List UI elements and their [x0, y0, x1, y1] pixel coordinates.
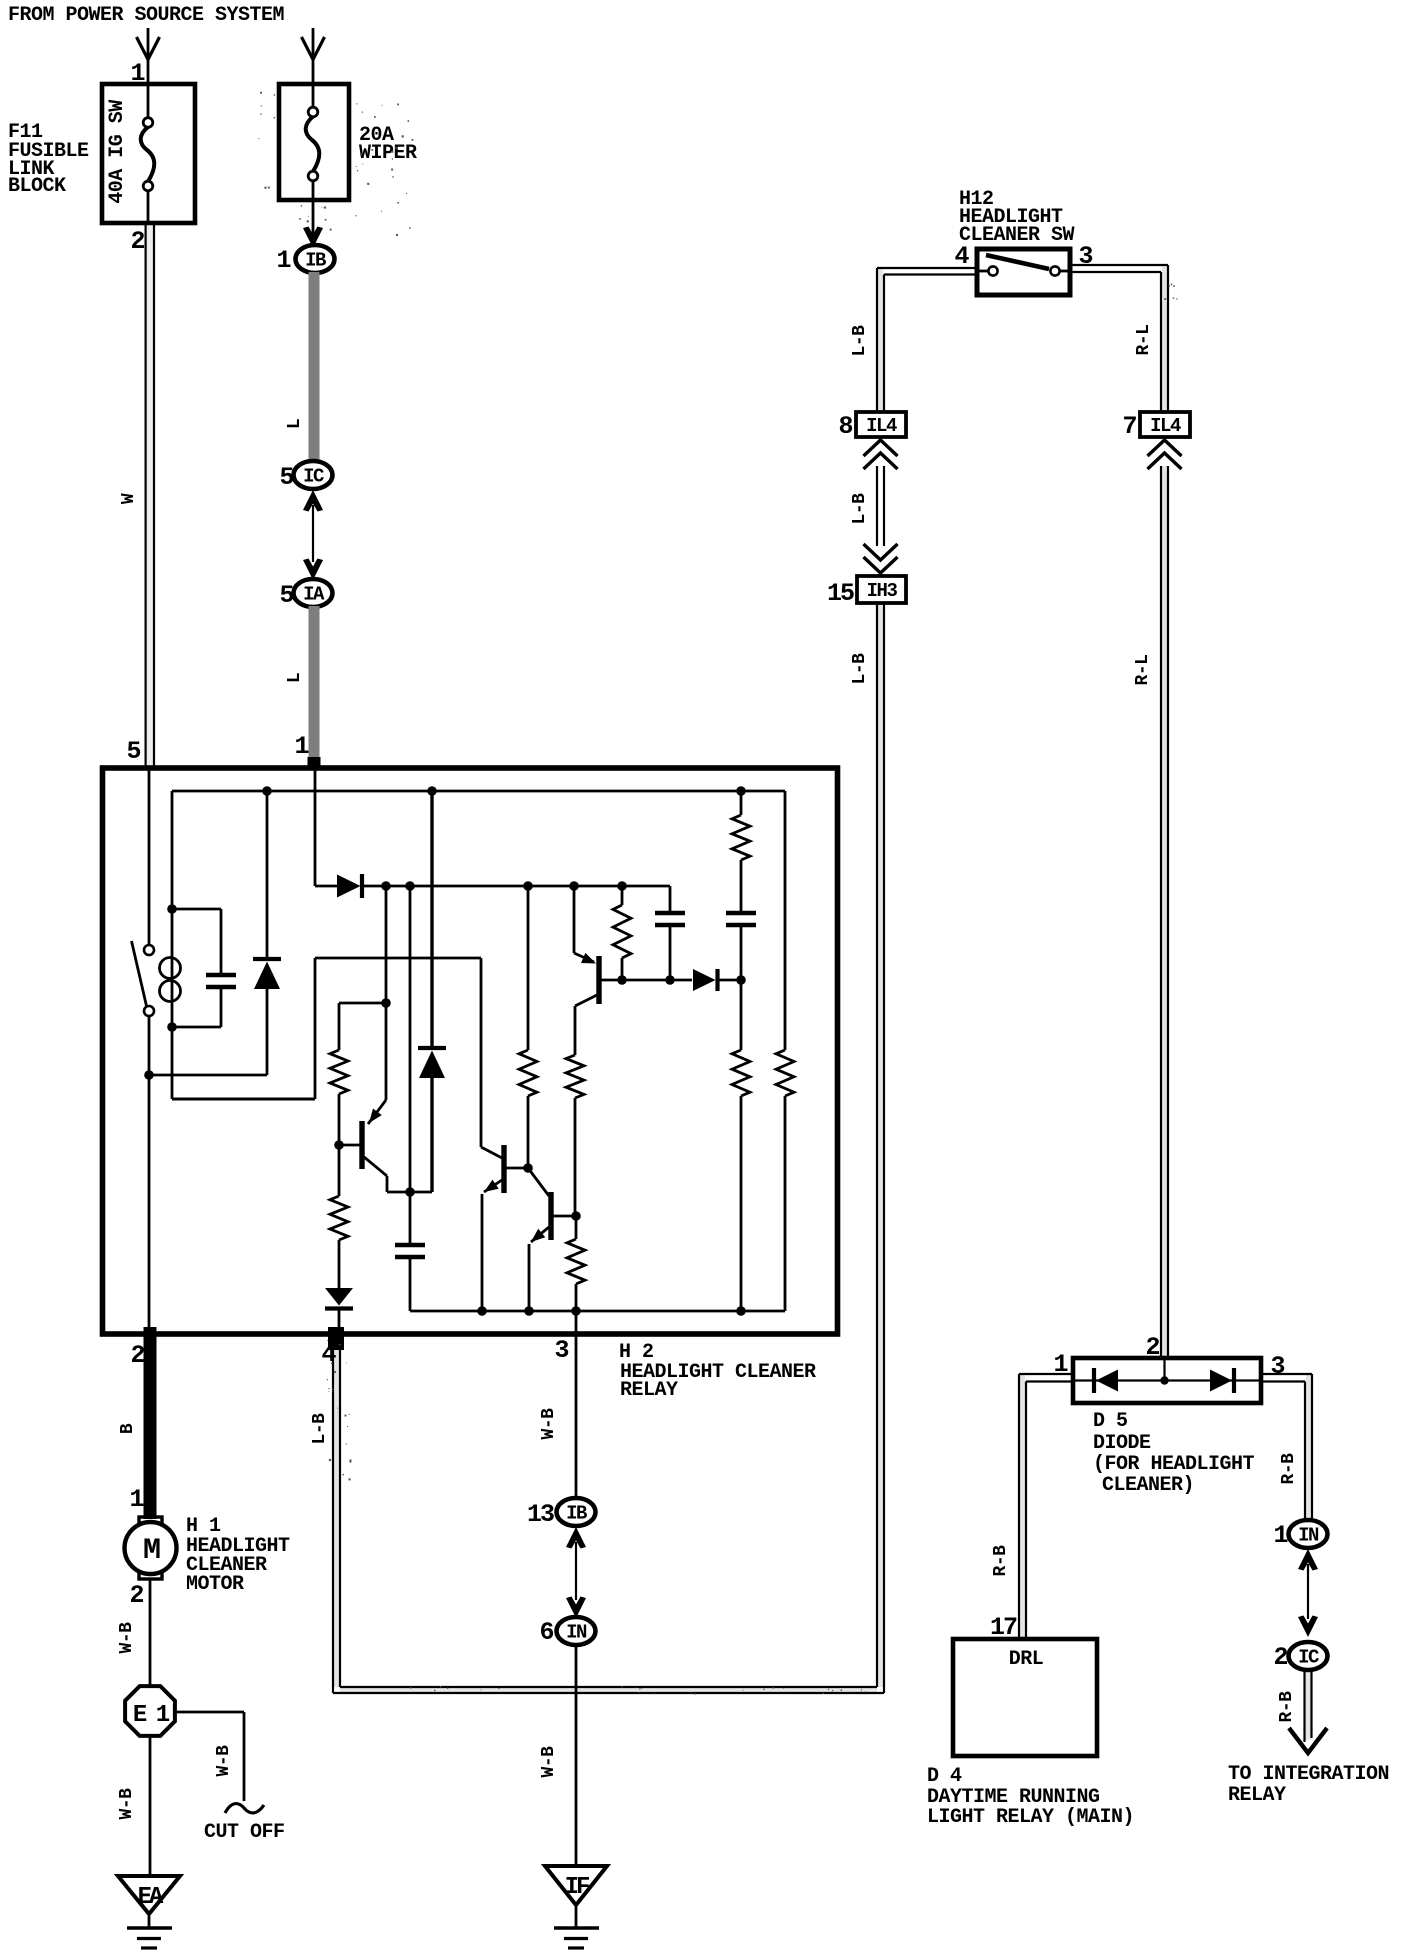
node Q2a base: [523, 1163, 533, 1173]
transistor Q2b (NPN): [528, 1168, 576, 1311]
label H12 HEADLIGHT CLEANER SW: [959, 188, 1075, 247]
step wire to Q2 collector: [315, 958, 481, 1147]
svg-text:IC: IC: [1298, 1647, 1319, 1669]
svg-text:W-B: W-B: [117, 1788, 137, 1820]
connector IH3: [857, 576, 906, 603]
connector IC (right): [1289, 1642, 1328, 1670]
link to R2: [339, 1002, 386, 1005]
svg-text:IH3: IH3: [867, 580, 898, 602]
node x386 y1003: [381, 998, 391, 1008]
svg-text:3: 3: [1078, 242, 1092, 271]
relay switch contacts: [144, 945, 154, 955]
connector IL4 (right): [1140, 412, 1190, 437]
wire IN to ground IF: [575, 1645, 578, 1866]
wire node to D0 anode: [149, 1074, 267, 1077]
svg-text:R-L: R-L: [1133, 655, 1153, 686]
motor H1: [125, 1522, 177, 1574]
svg-text:4: 4: [954, 242, 969, 271]
wire W double line F11 pin2 to H2 pin5: [146, 223, 154, 766]
diode D3: [325, 1288, 353, 1334]
node bottom rail x741: [736, 1306, 746, 1316]
node base line x741: [736, 975, 746, 985]
motor H1 terminal caps: [139, 1517, 162, 1579]
wire R-B D5 pin3 to IN: [1261, 1374, 1312, 1518]
fusible link block F11 box: [102, 84, 195, 223]
connector IN (right): [1289, 1520, 1328, 1548]
switch H12 box: [977, 249, 1070, 295]
svg-text:1: 1: [294, 732, 308, 761]
svg-text:5: 5: [279, 581, 293, 610]
right column wire with resistor R9: [776, 791, 794, 1311]
wire L-B double vertical from H2 pin4: [333, 1350, 340, 1693]
collector link rail y1192: [387, 1191, 432, 1194]
label D5 DIODE (FOR HEADLIGHT CLEANER): [1093, 1410, 1255, 1497]
diode D0 (coil clamp): [253, 791, 281, 1075]
node mid rail x622: [617, 881, 627, 891]
wire L-B double vertical right run: [877, 603, 884, 1693]
power feed arrow to wiper fuse: [302, 28, 325, 82]
wire motor to E1: [149, 1579, 152, 1688]
wire R-L down to D5: [1161, 466, 1168, 1356]
wire R-B to integration relay with arrow: [1289, 1670, 1327, 1753]
node mid rail x528: [523, 881, 533, 891]
junction arrows IN to IC: [1298, 1549, 1318, 1637]
connector IN (6): [557, 1617, 596, 1645]
node bottom rail x529: [524, 1306, 534, 1316]
svg-text:CLEANER): CLEANER): [1102, 1474, 1194, 1497]
svg-text:L-B: L-B: [850, 493, 870, 525]
node base line x622: [617, 975, 627, 985]
svg-text:BLOCK: BLOCK: [8, 175, 66, 198]
pin4 stub: [328, 1327, 344, 1350]
resistor R3: [330, 1145, 348, 1288]
svg-text:W-B: W-B: [117, 1622, 137, 1654]
svg-text:(FOR HEADLIGHT: (FOR HEADLIGHT: [1093, 1453, 1255, 1476]
transistor Q3 (PNP): [574, 886, 599, 1050]
connector arrows above IH3: [864, 544, 898, 573]
svg-text:5: 5: [279, 463, 293, 492]
svg-text:1: 1: [129, 1485, 143, 1514]
resistor R4: [732, 791, 750, 911]
svg-text:2: 2: [129, 1581, 143, 1610]
svg-text:MOTOR: MOTOR: [186, 1573, 244, 1596]
resistor R2: [330, 1003, 348, 1145]
svg-text:CUT OFF: CUT OFF: [204, 1821, 285, 1844]
cut off stub wire: [175, 1712, 264, 1813]
svg-text:E 1: E 1: [133, 1702, 170, 1729]
fuse box 20A WIPER: [279, 84, 349, 200]
branch x386 to Q1 emitter: [368, 886, 386, 1124]
svg-text:W: W: [119, 493, 139, 504]
svg-text:R-B: R-B: [1279, 1453, 1299, 1485]
wire R-B D5 pin1 to DRL: [1019, 1374, 1073, 1639]
relay switch blade: [132, 941, 147, 1006]
label D4 DAYTIME RUNNING LIGHT RELAY (MAIN): [927, 1765, 1134, 1829]
wire pin5 to relay switch: [148, 766, 151, 945]
svg-text:15: 15: [827, 579, 854, 608]
switch H12 contacts and blade: [978, 255, 1070, 276]
svg-text:EA: EA: [138, 1884, 164, 1911]
wire B (heavy) H2 pin2 to motor: [144, 1327, 157, 1519]
svg-text:L: L: [285, 419, 305, 429]
svg-text:CLEANER SW: CLEANER SW: [959, 224, 1075, 247]
Q3 base line: [601, 979, 692, 982]
svg-text:W-B: W-B: [214, 1745, 234, 1777]
capacitor C2: [655, 886, 685, 980]
svg-text:40A IG SW: 40A IG SW: [106, 100, 129, 204]
svg-text:8: 8: [838, 412, 852, 441]
connector arrows below IL4: [864, 440, 898, 546]
label TO INTEGRATION RELAY: [1228, 1763, 1389, 1807]
svg-text:7: 7: [1122, 412, 1136, 441]
svg-text:D 4: D 4: [927, 1765, 962, 1788]
svg-text:5: 5: [126, 737, 140, 766]
label F11 FUSIBLE LINK BLOCK: [8, 121, 89, 198]
node Q2b base: [571, 1211, 581, 1221]
svg-text:IB: IB: [566, 1503, 587, 1525]
diode block D5 box: [1073, 1358, 1261, 1403]
junction arrows IC to IA: [303, 490, 323, 580]
D5 right diode (points right): [1210, 1368, 1234, 1393]
node top rail / R4: [736, 786, 746, 796]
wire L (shaded) IA to H2 pin 1: [309, 606, 320, 766]
transistor Q2a (NPN): [481, 1145, 528, 1311]
wire switch to node: [148, 1016, 151, 1075]
svg-text:2: 2: [130, 227, 144, 256]
svg-text:1: 1: [276, 246, 290, 275]
connector IC: [294, 461, 333, 489]
connector IB (13): [557, 1498, 596, 1526]
svg-text:DIODE: DIODE: [1093, 1432, 1151, 1455]
wire coil bottom to step wire: [172, 1027, 315, 1099]
svg-text:IL4: IL4: [866, 415, 897, 437]
fuse 40A IG SW: [141, 84, 155, 221]
relay H2 box outline: [103, 768, 838, 1334]
wire R-L H12 pin3 to IL4 right: [1070, 265, 1168, 412]
node top rail / D2: [427, 786, 437, 796]
node base line x670: [665, 975, 675, 985]
diode D1: [315, 874, 670, 898]
transistor Q1 (PNP): [341, 1121, 387, 1192]
svg-text:1: 1: [1273, 1521, 1287, 1550]
svg-text:L-B: L-B: [850, 653, 870, 685]
pin1 stub into H2: [308, 757, 321, 769]
connector IL4 (left): [856, 412, 906, 437]
svg-text:M: M: [143, 1534, 160, 1568]
svg-text:IA: IA: [303, 584, 325, 606]
svg-text:IC: IC: [303, 466, 324, 488]
diode D2 on heavy branch: [418, 791, 446, 1192]
label 20A WIPER: [359, 124, 417, 165]
fuse 20A WIPER: [306, 84, 320, 200]
D5 internal rail and pin2 feed: [1075, 1358, 1259, 1385]
svg-text:R-B: R-B: [991, 1545, 1011, 1577]
node mid rail x410: [405, 881, 415, 891]
node top rail / D0: [262, 786, 272, 796]
node coil top: [167, 904, 177, 914]
svg-text:R-L: R-L: [1134, 325, 1154, 356]
ground EA: [118, 1876, 180, 1948]
svg-text:B: B: [118, 1423, 138, 1434]
svg-text:IF: IF: [565, 1874, 589, 1901]
ground point E1 (octagon): [125, 1686, 175, 1736]
svg-text:RELAY: RELAY: [1228, 1784, 1286, 1807]
wire W-B H2 pin3 down: [575, 1334, 578, 1498]
wire top rail to relay coil: [171, 791, 174, 909]
diode D4: [693, 969, 741, 991]
internal bottom rail: [410, 1310, 785, 1313]
node coil bottom: [167, 1022, 177, 1032]
svg-text:TO INTEGRATION: TO INTEGRATION: [1228, 1763, 1389, 1786]
wire from fuse to connector IB with arrow: [303, 200, 323, 248]
svg-text:R-B: R-B: [1277, 1691, 1297, 1723]
svg-text:W-B: W-B: [539, 1408, 559, 1440]
wire L-B H12 pin4 to IL4: [877, 268, 978, 412]
node mid rail x386: [381, 881, 391, 891]
svg-text:FROM POWER SOURCE SYSTEM: FROM POWER SOURCE SYSTEM: [8, 4, 285, 27]
resistor R8: [567, 1216, 585, 1334]
svg-text:2: 2: [130, 1341, 144, 1370]
connector IB: [296, 245, 335, 273]
node switch/pin2/D0: [144, 1070, 154, 1080]
scan noise speckles: [258, 92, 1177, 1695]
wire L-B double horizontal run: [333, 1687, 884, 1693]
svg-text:RELAY: RELAY: [620, 1379, 678, 1402]
relay D4 DRL box: [953, 1639, 1097, 1756]
svg-text:WIPER: WIPER: [359, 142, 417, 165]
svg-text:IN: IN: [1298, 1525, 1319, 1547]
svg-text:L-B: L-B: [310, 1413, 330, 1445]
node y1192 x410: [405, 1187, 415, 1197]
svg-text:D 5: D 5: [1093, 1410, 1128, 1433]
svg-text:13: 13: [527, 1500, 554, 1529]
svg-text:IN: IN: [566, 1622, 587, 1644]
branch x575 resistor R6: [566, 1050, 584, 1216]
svg-text:W-B: W-B: [539, 1746, 559, 1778]
svg-text:L-B: L-B: [850, 325, 870, 357]
wire node to pin 2: [148, 1075, 151, 1332]
resistor R7: [732, 980, 750, 1311]
capacitor C3: [726, 913, 756, 980]
junction arrows IB to IN: [566, 1527, 586, 1618]
svg-text:2: 2: [1273, 1643, 1287, 1672]
wire E1 to ground EA: [149, 1736, 152, 1876]
connector IA: [294, 579, 333, 607]
resistor R5: [613, 886, 631, 980]
svg-text:IL4: IL4: [1150, 415, 1181, 437]
svg-text:DRL: DRL: [1009, 1648, 1044, 1671]
node mid rail x574: [569, 881, 579, 891]
power feed arrow to F11: [137, 28, 160, 82]
label H2 HEADLIGHT CLEANER RELAY: [619, 1341, 816, 1402]
relay coil: [160, 909, 181, 1027]
svg-text:3: 3: [1270, 1352, 1284, 1381]
node bottom rail x482: [477, 1306, 487, 1316]
label H1 HEADLIGHT CLEANER MOTOR: [186, 1515, 290, 1596]
node bottom rail x576: [571, 1306, 581, 1316]
branch x528 with resistor: [519, 886, 537, 1168]
D5 left diode (points left): [1094, 1368, 1118, 1393]
wire L (shaded) IB to IC: [309, 272, 320, 460]
connector arrows below IL4 right: [1148, 440, 1182, 469]
internal top rail: [172, 790, 785, 793]
svg-text:6: 6: [539, 1618, 553, 1647]
node Q1 base: [334, 1140, 344, 1150]
capacitor C1 (across coil): [172, 909, 236, 1027]
svg-text:L: L: [285, 673, 305, 683]
svg-text:LIGHT RELAY (MAIN): LIGHT RELAY (MAIN): [927, 1806, 1134, 1829]
wire pin1 down: [314, 766, 317, 886]
branch x410 with capacitor C4: [395, 886, 425, 1311]
svg-text:3: 3: [554, 1336, 568, 1365]
ground IF: [545, 1866, 607, 1948]
svg-text:IB: IB: [305, 250, 326, 272]
